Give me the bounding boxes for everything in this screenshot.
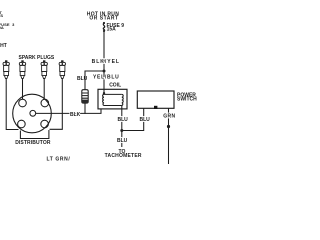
spark plug 4 — [59, 60, 65, 78]
wire: condenser lower lead to BLK line — [84, 103, 86, 114]
coil winding bottom connection — [104, 105, 122, 107]
spark plug 1 — [3, 60, 9, 78]
svg-text:SWITCH: SWITCH — [177, 96, 197, 102]
wire: BLK from distributor center to coil box — [36, 109, 101, 114]
wire: power switch BLU lead down and left to junction — [122, 108, 144, 130]
ignition coil box — [98, 89, 127, 109]
coil secondary winding (right) — [122, 94, 123, 105]
svg-text:DISTRIBUTOR: DISTRIBUTOR — [15, 140, 51, 146]
distributor terminal upper-right — [41, 99, 49, 107]
svg-text:GRN: GRN — [163, 113, 175, 119]
spark plug 2 — [19, 60, 25, 78]
svg-text:BLU: BLU — [77, 76, 88, 82]
fuse bottom terminal dot — [103, 30, 105, 32]
coil primary winding (left) — [103, 94, 104, 105]
distributor terminal lower-right — [41, 120, 49, 128]
svg-text:YEL/BLU: YEL/BLU — [93, 75, 119, 81]
wire: GRN lead from power switch down off page — [168, 108, 170, 164]
svg-text:BLU: BLU — [140, 117, 151, 123]
wire: YEL/BLU junction down to coil — [103, 71, 105, 95]
wire: fuse feed vertical BLK/YEL from fuse 9 down to junction — [103, 32, 105, 72]
wire: spark plug 4 lead to distributor — [50, 79, 63, 130]
svg-text:15A: 15A — [107, 27, 117, 33]
junction dot BLK/YEL-YEL/BLU-BLU — [103, 70, 106, 73]
svg-text:COIL: COIL — [109, 82, 121, 88]
fuse top terminal dot — [103, 22, 105, 24]
wire: spark plug 1 lead to distributor — [6, 79, 18, 130]
tachometer wire junction dot — [120, 129, 123, 132]
distributor base skirt — [20, 130, 49, 139]
distributor terminal upper-left — [19, 99, 27, 107]
condenser dark base — [82, 100, 88, 103]
coil winding top connection — [104, 93, 122, 95]
svg-text:SPARK PLUGS: SPARK PLUGS — [19, 55, 55, 61]
spark plug 3 — [41, 60, 47, 78]
svg-text:MES: MES — [0, 13, 3, 18]
coil primary entry dot — [103, 92, 105, 94]
svg-text:BLK: BLK — [70, 112, 81, 118]
distributor center terminal — [30, 110, 36, 116]
wire: coil secondary output down to tach junction — [121, 106, 123, 148]
fuse FUSE 9 15A symbol — [103, 23, 104, 31]
svg-text:BLK/YEL: BLK/YEL — [92, 59, 120, 65]
svg-text:WHT: WHT — [0, 43, 7, 49]
GRN wire connector dot — [167, 125, 170, 128]
distributor cap circle — [13, 94, 52, 133]
power switch terminal (black square) — [154, 106, 157, 109]
svg-text:0A: 0A — [0, 25, 4, 30]
svg-text:LT GRN/: LT GRN/ — [47, 157, 71, 163]
power switch box — [137, 91, 174, 108]
wire: spark plug 3 lead to distributor terminal — [43, 79, 45, 100]
svg-text:TACHOMETER: TACHOMETER — [105, 153, 142, 159]
svg-text:OR START: OR START — [89, 15, 118, 21]
svg-text:BLU: BLU — [117, 138, 128, 144]
wire: spark plug 2 lead to distributor terminal — [22, 79, 24, 100]
svg-text:BLU: BLU — [118, 117, 129, 123]
wire: branch left from junction to condenser — [85, 71, 104, 90]
distributor terminal lower-left — [18, 120, 26, 128]
condenser body — [82, 90, 88, 103]
